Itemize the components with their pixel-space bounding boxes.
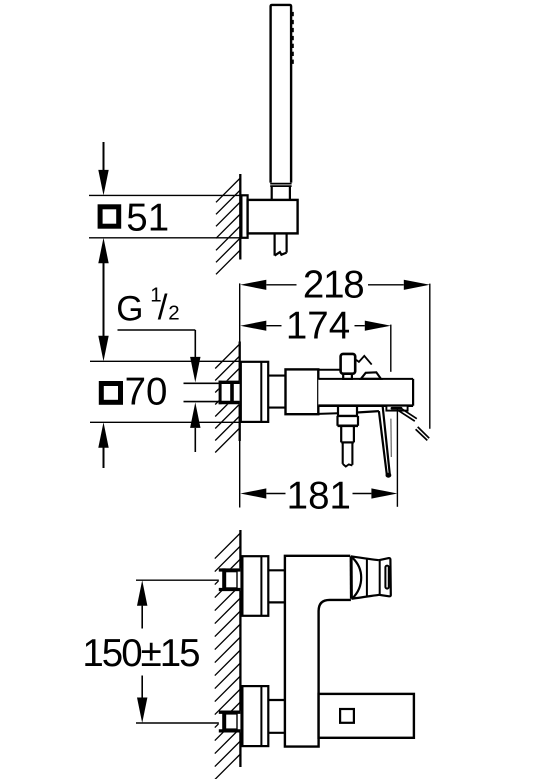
wall line (middle view): [239, 342, 241, 442]
spout outline: [318, 378, 413, 380]
diverter knob stem: [343, 373, 352, 379]
escutcheon flange (middle view): [241, 362, 268, 422]
wall line (top view): [239, 174, 241, 260]
square symbol 70: [101, 384, 120, 403]
arrowhead up at 51 bottom: [98, 238, 108, 263]
shower outlet cone C: [340, 426, 342, 443]
svg-text:2: 2: [168, 302, 179, 325]
top connector stubs: [268, 569, 285, 571]
handle lower tube into bracket: [271, 187, 273, 201]
svg-text:150±15: 150±15: [82, 632, 199, 675]
spout fill: [318, 379, 413, 406]
mixer body (front view): [285, 556, 351, 747]
spout (front view): [319, 694, 414, 738]
extension line left (218/174/181) upper: [239, 283, 241, 341]
top wall union fitting: [219, 568, 241, 591]
diverter hump: [361, 372, 381, 379]
svg-text:181: 181: [287, 474, 351, 517]
dimension 174: [390, 325, 392, 372]
shower holder flange (top view): [241, 195, 247, 238]
dimension 51 extension lines: [89, 195, 240, 237]
dimension 70 extension lines: [90, 360, 240, 362]
wall hatching (bottom view): [215, 533, 241, 779]
wall hatching (middle view): [215, 344, 240, 453]
bottom connector stubs: [268, 699, 285, 701]
wall line (bottom view): [239, 530, 241, 767]
spray nozzles on handle edge: [291, 12, 294, 64]
square symbol 51: [100, 207, 119, 226]
supply pipe lines: [184, 382, 221, 384]
svg-text:70: 70: [125, 371, 168, 414]
dimension 150 extension lines: [136, 579, 222, 581]
hose stub D with break cut: [342, 442, 344, 464]
shower holder bracket: [248, 200, 298, 234]
bottom escutcheon flange (front view): [242, 686, 268, 746]
arrowhead up to pipe bottom: [190, 402, 200, 428]
bottom wall union fitting: [219, 711, 241, 733]
diverter knob: [341, 354, 356, 374]
G 1/2 leader line: [118, 329, 196, 331]
shower outlet nut B: [338, 415, 359, 417]
deck line: [318, 369, 341, 371]
spout square detail: [340, 709, 354, 723]
lever cylinder cap arc: [352, 558, 361, 599]
shower outlet tube segment A: [337, 407, 339, 416]
lever handle (side view): [318, 412, 338, 415]
caret mark: [356, 356, 372, 365]
dimension 181: [396, 410, 398, 507]
dimension 150 +/- 15: [141, 606, 143, 629]
arrowhead down at 70 top: [98, 336, 108, 362]
extension line left lower: [239, 441, 241, 508]
dimension 51 arrow lines: [103, 142, 105, 468]
connector stubs: [268, 375, 285, 377]
aerator block under spout: [386, 406, 407, 411]
hand shower handle: [271, 5, 292, 183]
arrowhead down at 51 top: [98, 170, 108, 196]
svg-text:G: G: [116, 289, 143, 328]
arrowhead down to pipe top: [190, 357, 200, 383]
svg-text:51: 51: [126, 196, 169, 239]
wall hatching (top view): [216, 178, 240, 274]
hose outlet below bracket: [275, 233, 287, 255]
lever end slot: [385, 566, 388, 589]
lever handle (front view): [350, 556, 353, 599]
top escutcheon flange (front view): [242, 556, 268, 616]
dimension 218: [429, 284, 431, 429]
svg-text:174: 174: [286, 304, 350, 347]
handle joint double lines: [270, 183, 291, 185]
wall union fitting (middle view): [219, 381, 240, 405]
svg-text:/: /: [158, 288, 168, 327]
arrowhead up at 70 bottom: [98, 422, 108, 448]
svg-text:218: 218: [303, 264, 364, 307]
lever motion tick marks: [399, 408, 430, 440]
mixer body (middle view): [286, 369, 319, 414]
